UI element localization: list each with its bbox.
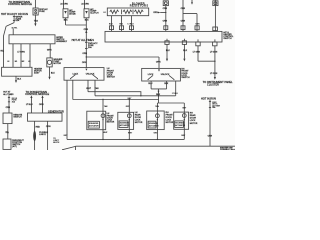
svg-text:SWITCH: SWITCH xyxy=(181,77,190,79)
svg-text:HOT AT ALL TIMES: HOT AT ALL TIMES xyxy=(72,38,95,42)
svg-text:BLOCK: BLOCK xyxy=(53,142,60,144)
svg-text:ACTUATOR: ACTUATOR xyxy=(175,124,185,127)
svg-text:ORN: ORN xyxy=(163,20,168,22)
svg-text:M2: M2 xyxy=(22,61,25,63)
svg-text:DIODE: DIODE xyxy=(69,13,76,15)
svg-text:HOT IN ACCY OR RUN: HOT IN ACCY OR RUN xyxy=(1,12,28,16)
svg-text:BLK: BLK xyxy=(156,94,161,96)
svg-text:TAN: TAN xyxy=(34,20,38,23)
svg-text:ORN: ORN xyxy=(82,53,87,55)
svg-text:LT BLU: LT BLU xyxy=(172,93,179,95)
svg-text:UNLOCK: UNLOCK xyxy=(86,74,95,76)
svg-text:ORN: ORN xyxy=(195,23,200,25)
svg-text:LINK E: LINK E xyxy=(39,134,46,136)
svg-text:CLUTCH: CLUTCH xyxy=(90,12,99,14)
svg-text:ALL TIMES: ALL TIMES xyxy=(3,93,14,96)
svg-text:TAN: TAN xyxy=(95,87,99,90)
svg-text:MOTOR: MOTOR xyxy=(190,123,198,125)
svg-text:16 YEL: 16 YEL xyxy=(12,27,18,29)
svg-text:HOT IN RUN: HOT IN RUN xyxy=(201,96,216,100)
svg-text:SWITCH: SWITCH xyxy=(13,116,22,118)
svg-text:LT BLU: LT BLU xyxy=(128,24,135,26)
svg-text:24 ORN: 24 ORN xyxy=(81,3,89,5)
svg-text:MOTOR: MOTOR xyxy=(107,122,115,124)
svg-text:LT GRN: LT GRN xyxy=(210,73,218,75)
svg-text:BLK: BLK xyxy=(17,78,22,80)
svg-text:BLK: BLK xyxy=(166,50,171,52)
svg-text:ASSEMBLY: ASSEMBLY xyxy=(56,40,68,43)
svg-text:20A: 20A xyxy=(88,46,92,49)
svg-text:ORN: ORN xyxy=(153,12,158,14)
svg-text:ORN: ORN xyxy=(82,62,87,64)
svg-text:MOTOR: MOTOR xyxy=(53,63,61,65)
svg-text:SWITCH: SWITCH xyxy=(223,38,232,40)
svg-text:M1: M1 xyxy=(15,61,17,63)
svg-text:CONTROL MODULE: CONTROL MODULE xyxy=(25,92,49,96)
svg-text:ORN: ORN xyxy=(39,104,44,106)
svg-text:LOCK: LOCK xyxy=(73,74,79,76)
svg-text:ORN: ORN xyxy=(46,126,51,128)
svg-text:GENERATOR: GENERATOR xyxy=(48,109,64,113)
svg-text:ORN: ORN xyxy=(163,8,168,10)
svg-text:LT GRN: LT GRN xyxy=(193,52,201,54)
svg-text:RESISTORS: RESISTORS xyxy=(130,4,149,8)
svg-text:ORN: ORN xyxy=(208,136,213,138)
svg-text:BLK: BLK xyxy=(51,72,56,74)
svg-text:CLUSTER: CLUSTER xyxy=(207,83,219,87)
svg-text:LT GRN: LT GRN xyxy=(210,52,218,54)
svg-text:ACTUATOR: ACTUATOR xyxy=(89,124,99,127)
svg-text:LOCK: LOCK xyxy=(148,74,154,76)
svg-text:RED: RED xyxy=(36,126,41,128)
svg-text:ASSY: ASSY xyxy=(34,71,40,74)
svg-text:ORN: ORN xyxy=(6,107,11,109)
svg-text:BLU: BLU xyxy=(148,83,153,85)
svg-text:FUSE: FUSE xyxy=(39,11,45,13)
svg-text:LT GRN: LT GRN xyxy=(17,51,25,53)
svg-text:ACTUATOR: ACTUATOR xyxy=(120,124,130,127)
svg-text:ORN: ORN xyxy=(84,29,89,31)
svg-text:REAR: REAR xyxy=(190,114,196,117)
svg-text:(A/T): (A/T) xyxy=(12,145,17,148)
svg-text:LT BLU: LT BLU xyxy=(26,104,33,106)
svg-text:GRN: GRN xyxy=(47,50,52,52)
svg-text:BLK: BLK xyxy=(164,83,169,85)
svg-text:ORN: ORN xyxy=(181,8,186,10)
svg-text:MOTOR: MOTOR xyxy=(135,122,143,124)
svg-text:ACTUATOR: ACTUATOR xyxy=(149,124,159,127)
svg-text:BLK: BLK xyxy=(85,20,90,22)
svg-text:BLK: BLK xyxy=(183,50,188,52)
svg-text:CONTROL MODULE: CONTROL MODULE xyxy=(8,2,32,6)
svg-text:24 ORN: 24 ORN xyxy=(60,3,68,5)
svg-text:25A: 25A xyxy=(16,19,20,22)
svg-text:BLK: BLK xyxy=(64,20,69,22)
svg-text:SWITCH: SWITCH xyxy=(107,77,116,79)
svg-text:WHT: WHT xyxy=(86,88,91,90)
svg-text:ORN: ORN xyxy=(181,20,186,22)
svg-text:UNLOCK: UNLOCK xyxy=(161,74,170,76)
svg-text:ORN: ORN xyxy=(156,61,161,63)
svg-text:MOTOR: MOTOR xyxy=(166,122,174,124)
